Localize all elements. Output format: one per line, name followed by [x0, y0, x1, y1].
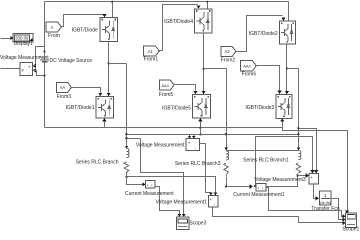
wire DC- bottom bus	[45, 127, 283, 129]
wire gate From5 to IGBT/Diode5	[175, 85, 196, 91]
scope Scope1	[346, 213, 357, 228]
wire gate From3 to IGBT/Diode1	[72, 88, 101, 93]
svg-text:AA2: AA2	[243, 64, 251, 69]
node C-branch	[297, 127, 299, 129]
node A-line	[125, 133, 127, 135]
wire left DC bus vertical	[44, 2, 46, 128]
svg-text:Current Measurement1: Current Measurement1	[233, 192, 285, 198]
voltage measurement VM2 Voltage Measurement (phase A)	[186, 139, 199, 151]
scope Scope3	[177, 217, 189, 230]
node A-vm2	[125, 137, 127, 139]
svg-text:Transfer Fcn: Transfer Fcn	[311, 206, 339, 212]
svg-text:AA1: AA1	[162, 83, 170, 88]
svg-text:AA: AA	[60, 85, 66, 90]
svg-text:Display1: Display1	[14, 41, 33, 47]
from tag AA (From3)	[56, 82, 71, 92]
wire gate From A to IGBT/Diode	[62, 15, 104, 27]
svg-text:(4e-9s): (4e-9s)	[320, 201, 331, 205]
wire C drop IGBT/Diode2	[288, 2, 290, 21]
wire to Display1	[1, 38, 11, 40]
svg-text:A: A	[51, 25, 54, 30]
svg-text:IGBT/Diode: IGBT/Diode	[72, 27, 98, 33]
wire CM2 i-output to Scope1 lower	[267, 188, 343, 217]
current measurement CM1 Current Measurement	[146, 181, 156, 189]
wire RLC-A mid tap to VM1b right	[127, 177, 216, 193]
node phase C	[286, 67, 288, 69]
wire VM1 plus to bus	[36, 47, 45, 66]
igbt block U4 IGBT/Diode4	[195, 9, 213, 33]
wire gate From2 to IGBT/Diode2	[237, 16, 283, 52]
svg-text:+: +	[188, 141, 191, 146]
wire C stub IGBT/Diode4	[207, 2, 209, 9]
svg-text:From2: From2	[221, 57, 236, 63]
node C-line	[297, 133, 299, 135]
svg-text:Voltage Measurement: Voltage Measurement	[136, 142, 185, 148]
voltage measurement VM3 Voltage Measurement3	[309, 174, 319, 185]
igbt block U5 IGBT/Diode5	[193, 95, 211, 119]
svg-text:Series RLC Branch1: Series RLC Branch1	[243, 157, 289, 163]
wire E stub IGBT/Diode5	[200, 121, 202, 128]
svg-text:Scope1: Scope1	[342, 227, 359, 232]
svg-text:From5: From5	[159, 92, 174, 98]
svg-text:From1: From1	[144, 57, 159, 63]
svg-text:From: From	[48, 33, 60, 39]
wire VM2 output down to VM1b left	[200, 144, 211, 193]
from tag A (From)	[46, 22, 61, 32]
wire RLC3 top to RLC1 top	[227, 150, 299, 152]
svg-text:Voltage Measurement1: Voltage Measurement1	[155, 200, 207, 206]
svg-text:From3: From3	[57, 94, 72, 100]
node C4	[206, 1, 208, 3]
wire VM1b output to Scope1	[213, 207, 343, 223]
igbt block U2 IGBT/Diode2	[279, 21, 295, 44]
wire phase A to VM2 plus	[127, 138, 141, 140]
arrow into RLC A top	[125, 146, 129, 149]
node neutral-join	[254, 185, 256, 187]
wire phase C branch to VM3 right-top	[299, 129, 317, 171]
svg-text:IGBT/Diode4: IGBT/Diode4	[164, 19, 193, 25]
wire CM2 right to RLC1 bottom	[267, 174, 298, 187]
wire gate From6 to IGBT/Diode3	[257, 66, 280, 91]
from tag AA1 (From5)	[159, 80, 174, 90]
wire VM3 output to Transfer Fcn	[314, 185, 316, 199]
wire CM1 out to Scope3	[155, 187, 180, 215]
display Display1	[13, 34, 33, 43]
wire RLC-A bottom to CM1	[127, 173, 143, 185]
igbt block U3 IGBT/Diode1	[96, 97, 114, 119]
wire VM1 output to left edge	[1, 68, 21, 70]
node phase A	[108, 62, 110, 64]
node bus-vm+	[43, 50, 45, 52]
voltage measurement VM1b Voltage Measurement1	[208, 196, 218, 207]
svg-text:Voltage Measurement: Voltage Measurement	[0, 55, 49, 61]
svg-text:IGBT/Diode1: IGBT/Diode1	[66, 105, 95, 111]
rlc branch Series RLC Branch3 (phase B)	[224, 151, 229, 176]
from tag AA2 (From6)	[241, 61, 257, 71]
svg-text:Current Measurement: Current Measurement	[125, 191, 174, 197]
node rlc3-neutral	[225, 185, 227, 187]
from tag A2 (From2)	[221, 47, 236, 57]
svg-text:+: +	[28, 65, 31, 70]
svg-text:A1: A1	[147, 49, 153, 54]
wire E leg2 to C IGBT/Diode3 + phase C tap	[286, 44, 288, 95]
node B-line	[225, 133, 227, 135]
wire RLC3 bottom to CM2	[227, 177, 251, 187]
transfer fcn block Transfer Fcn	[320, 191, 332, 205]
node phase B	[202, 68, 204, 70]
svg-text:DC Voltage Source: DC Voltage Source	[50, 58, 93, 64]
igbt block U6 IGBT/Diode3	[276, 94, 292, 118]
svg-text:IGBT/Diode5: IGBT/Diode5	[162, 105, 191, 111]
node bus-vm-	[43, 74, 45, 76]
rlc branch Series RLC Branch1 (phase C)	[296, 151, 301, 174]
wire DC+ top bus	[45, 1, 289, 3]
wire E leg1 to C IGBT/Diode1 + phase A tap	[108, 42, 110, 97]
wire line A-B-C horizontal	[127, 134, 299, 136]
wire Transfer Fcn to Scope1 upper	[331, 199, 343, 220]
svg-text:From6: From6	[242, 72, 257, 78]
igbt port marks	[98, 10, 294, 117]
wire gate From1 to IGBT/Diode4	[160, 5, 198, 51]
svg-text:A2: A2	[224, 49, 230, 54]
wire bus tap to VM2 minus	[200, 128, 202, 135]
wire E stub IGBT/Diode1	[104, 121, 106, 128]
node rlc1-tap	[297, 174, 299, 176]
igbt block U1 IGBT/Diode	[100, 17, 118, 41]
node VM2 tap on bus	[199, 127, 201, 129]
node C1	[111, 1, 113, 3]
svg-text:+: +	[210, 197, 213, 202]
dc source DC Voltage Source battery	[40, 55, 50, 62]
svg-text:330.00: 330.00	[15, 36, 29, 41]
svg-text:Series RLC Branch: Series RLC Branch	[76, 160, 119, 166]
rlc branch Series RLC Branch (phase A)	[124, 149, 129, 173]
from tag A1 (From1)	[144, 46, 160, 56]
wire E stub IGBT/Diode3	[282, 122, 284, 128]
current measurement CM2 Current Measurement1	[256, 184, 266, 192]
svg-text:Voltage Measurement3: Voltage Measurement3	[254, 177, 306, 183]
wire neutral riser to VM3 left-top	[256, 137, 313, 187]
wire rlc1 tap to VM3 left	[298, 175, 307, 177]
svg-text:Series RLC Branch3: Series RLC Branch3	[175, 161, 221, 167]
svg-text:IGBT/Diode3: IGBT/Diode3	[245, 105, 274, 111]
wire C stub IGBT/Diode	[112, 2, 114, 18]
wire bus end to Scope1 top	[283, 128, 348, 211]
svg-text:IGBT/Diode2: IGBT/Diode2	[249, 31, 278, 37]
node rlcA-tap	[125, 176, 127, 178]
wire VM2 v-branch to Scope3	[141, 139, 184, 215]
wire E leg4 to C IGBT/Diode5 + phase B tap	[203, 34, 205, 95]
svg-text:Scope3: Scope3	[189, 221, 206, 227]
svg-text:+: +	[310, 175, 313, 180]
voltage measurement VM1 Voltage Measurement	[20, 63, 33, 77]
wire VM1 minus to bus	[37, 71, 45, 76]
